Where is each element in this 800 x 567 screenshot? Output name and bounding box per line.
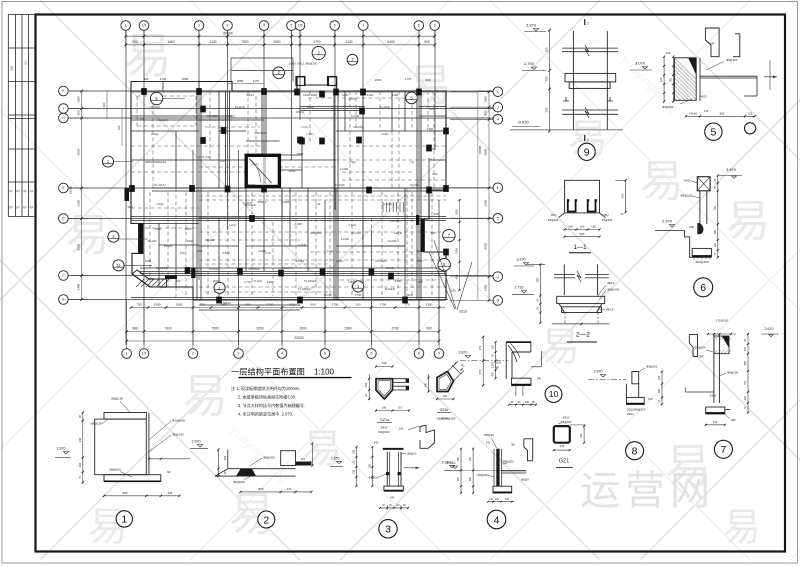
svg-text:150: 150 bbox=[352, 469, 355, 474]
svg-text:L3(2): L3(2) bbox=[151, 132, 158, 136]
svg-text:140: 140 bbox=[382, 406, 387, 410]
svg-text:易: 易 bbox=[124, 30, 172, 83]
svg-text:5800: 5800 bbox=[484, 242, 488, 249]
svg-text:L16: L16 bbox=[417, 249, 422, 253]
svg-text:9: 9 bbox=[434, 24, 436, 28]
svg-text:22000: 22000 bbox=[294, 336, 304, 340]
svg-text:L4(1): L4(1) bbox=[306, 132, 313, 136]
svg-text:2Φ8: 2Φ8 bbox=[731, 419, 736, 422]
svg-text:KL4(1A): KL4(1A) bbox=[154, 183, 165, 187]
svg-text:2Φ8: 2Φ8 bbox=[689, 225, 695, 229]
svg-text:GZ1a: GZ1a bbox=[380, 418, 389, 422]
svg-text:10: 10 bbox=[549, 389, 559, 399]
svg-text:WL(1): WL(1) bbox=[296, 110, 304, 114]
svg-text:5: 5 bbox=[291, 24, 293, 28]
svg-text:1: 1 bbox=[121, 514, 127, 526]
svg-text:240: 240 bbox=[579, 433, 583, 438]
svg-text:TL9(1): TL9(1) bbox=[324, 293, 333, 297]
svg-text:300x500: 300x500 bbox=[248, 267, 260, 271]
right dimension lines bbox=[450, 92, 493, 301]
svg-text:L8(2): L8(2) bbox=[348, 280, 355, 284]
svg-text:2.040: 2.040 bbox=[294, 222, 302, 226]
svg-text:KL11(2): KL11(2) bbox=[235, 105, 245, 109]
svg-text:700: 700 bbox=[139, 117, 144, 121]
svg-text:240: 240 bbox=[374, 440, 379, 444]
grid axis bubbles left bbox=[59, 86, 69, 304]
svg-text:5: 5 bbox=[710, 126, 716, 138]
svg-text:2100: 2100 bbox=[345, 40, 352, 44]
svg-text:2000: 2000 bbox=[273, 40, 280, 44]
svg-text:2.870: 2.870 bbox=[594, 370, 603, 374]
section 2-2 bbox=[512, 258, 619, 343]
detail 7 parapet section bbox=[685, 319, 779, 459]
svg-text:15800: 15800 bbox=[478, 145, 482, 154]
svg-text:6400: 6400 bbox=[387, 40, 394, 44]
svg-text:易: 易 bbox=[540, 325, 580, 369]
svg-text:1500: 1500 bbox=[176, 303, 183, 307]
svg-text:7: 7 bbox=[720, 444, 726, 456]
svg-text:3.670: 3.670 bbox=[726, 167, 737, 172]
svg-text:2: 2 bbox=[198, 24, 200, 28]
svg-text:运营网: 运营网 bbox=[580, 469, 715, 513]
svg-text:2.750: 2.750 bbox=[524, 61, 535, 66]
svg-text:2Φ14: 2Φ14 bbox=[246, 93, 254, 97]
K-line gray beam band bbox=[131, 91, 478, 93]
svg-text:150: 150 bbox=[469, 476, 472, 481]
porch column boxes bbox=[296, 77, 305, 86]
svg-text:TL MN12: TL MN12 bbox=[219, 301, 232, 305]
svg-text:400x200: 400x200 bbox=[206, 114, 218, 118]
svg-text:900: 900 bbox=[132, 40, 138, 44]
svg-text:Φ6@20: Φ6@20 bbox=[477, 473, 487, 477]
svg-text:4: 4 bbox=[263, 24, 265, 28]
svg-text:500: 500 bbox=[245, 303, 250, 307]
svg-text:3.870: 3.870 bbox=[526, 23, 537, 28]
svg-text:8: 8 bbox=[632, 445, 638, 457]
svg-text:1700: 1700 bbox=[355, 293, 362, 297]
svg-text:4Φ12: 4Φ12 bbox=[700, 95, 707, 99]
svg-text:270: 270 bbox=[478, 345, 482, 350]
svg-text:8: 8 bbox=[418, 24, 420, 28]
svg-text:490: 490 bbox=[484, 110, 488, 115]
canopy outline bbox=[231, 58, 293, 82]
interior dashed beam lines bbox=[131, 91, 446, 300]
svg-text:100: 100 bbox=[492, 371, 495, 376]
svg-text:450: 450 bbox=[455, 274, 459, 279]
svg-text:140: 140 bbox=[489, 498, 494, 501]
svg-text:KL7(1): KL7(1) bbox=[410, 183, 419, 187]
svg-text:3. 节点大样的括号内数值为轴线编号.: 3. 节点大样的括号内数值为轴线编号. bbox=[238, 402, 305, 408]
svg-text:300: 300 bbox=[433, 212, 438, 216]
svg-text:300x550: 300x550 bbox=[310, 231, 322, 235]
section 1-1 bbox=[548, 179, 627, 253]
svg-text:4. 未注明的梁定位居中: 2.870.: 4. 未注明的梁定位居中: 2.870. bbox=[238, 411, 293, 417]
bottom dimension lines bbox=[127, 300, 445, 349]
svg-text:3: 3 bbox=[238, 352, 240, 356]
svg-text:4Φ14: 4Φ14 bbox=[607, 281, 615, 285]
column GZ1 plan detail bbox=[553, 416, 586, 468]
svg-text:120: 120 bbox=[580, 225, 585, 229]
corner column GZ1a plan bbox=[365, 361, 410, 412]
notes bbox=[231, 385, 305, 417]
svg-text:1700: 1700 bbox=[395, 279, 402, 283]
svg-text:1: 1 bbox=[125, 24, 127, 28]
svg-text:500: 500 bbox=[621, 193, 625, 198]
svg-text:KL8(2): KL8(2) bbox=[209, 267, 218, 271]
svg-text:1100: 1100 bbox=[455, 248, 459, 254]
svg-text:核3: 核3 bbox=[30, 205, 34, 209]
inner right dim chain bbox=[459, 200, 461, 290]
svg-text:3: 3 bbox=[227, 24, 229, 28]
svg-text:GZ1a: GZ1a bbox=[459, 310, 467, 314]
svg-text:240: 240 bbox=[560, 444, 565, 448]
svg-text:330: 330 bbox=[714, 229, 717, 234]
svg-text:Φ8@200: Φ8@200 bbox=[726, 58, 738, 62]
detail 10 wall section bbox=[459, 336, 562, 406]
detail 4 wall base section bbox=[444, 433, 533, 529]
svg-text:900: 900 bbox=[417, 259, 422, 263]
svg-text:100: 100 bbox=[495, 498, 500, 501]
svg-text:1:100: 1:100 bbox=[314, 368, 335, 377]
svg-text:1x430: 1x430 bbox=[341, 237, 350, 241]
svg-text:1100: 1100 bbox=[145, 259, 152, 263]
svg-text:150: 150 bbox=[78, 462, 82, 467]
left dimension lines bbox=[68, 91, 88, 300]
svg-text:120: 120 bbox=[659, 77, 663, 82]
svg-text:2.870: 2.870 bbox=[222, 251, 230, 255]
svg-text:140: 140 bbox=[713, 420, 718, 424]
svg-text:L13(1): L13(1) bbox=[258, 249, 267, 253]
svg-text:易: 易 bbox=[726, 197, 770, 246]
svg-text:一层结构平面布置图: 一层结构平面布置图 bbox=[231, 367, 305, 377]
svg-text:1730: 1730 bbox=[160, 77, 167, 81]
svg-text:L5(2): L5(2) bbox=[381, 132, 388, 136]
svg-text:600: 600 bbox=[122, 491, 127, 495]
detail 9 wall section bbox=[510, 19, 623, 160]
svg-text:800: 800 bbox=[258, 487, 263, 491]
svg-text:GZb: GZb bbox=[450, 289, 456, 293]
svg-text:980: 980 bbox=[132, 327, 138, 331]
svg-text:审3: 审3 bbox=[30, 189, 34, 193]
svg-text:240: 240 bbox=[486, 441, 491, 445]
svg-text:4Φ12: 4Φ12 bbox=[563, 416, 570, 420]
svg-text:GZ1b: GZ1b bbox=[440, 408, 449, 412]
svg-text:900: 900 bbox=[426, 327, 432, 331]
svg-text:120: 120 bbox=[744, 395, 747, 400]
svg-text:GZ1: GZ1 bbox=[559, 459, 569, 465]
svg-text:240: 240 bbox=[710, 42, 715, 46]
svg-text:1770: 1770 bbox=[349, 97, 356, 101]
corner column GZ1b plan bbox=[425, 361, 466, 421]
grid axis bubbles right bbox=[493, 87, 503, 305]
svg-text:350: 350 bbox=[368, 463, 371, 468]
svg-text:L7(2): L7(2) bbox=[348, 160, 355, 164]
svg-text:775: 775 bbox=[417, 280, 422, 284]
svg-text:Φ8@200: Φ8@200 bbox=[646, 365, 658, 369]
svg-text:900: 900 bbox=[175, 279, 180, 283]
svg-text:注 1. 现浇板厚度除注明外均为100mm.: 注 1. 现浇板厚度除注明外均为100mm. bbox=[231, 385, 301, 391]
svg-text:h=1.440: h=1.440 bbox=[200, 155, 211, 159]
floor plan grid lines bbox=[66, 31, 493, 346]
svg-text:3.870: 3.870 bbox=[517, 258, 526, 262]
svg-text:330: 330 bbox=[657, 388, 661, 393]
svg-text:Φ5@9: Φ5@9 bbox=[521, 478, 529, 482]
svg-text:Φ10@200: Φ10@200 bbox=[172, 419, 186, 423]
svg-text:580: 580 bbox=[535, 277, 539, 282]
svg-text:z: z bbox=[587, 138, 589, 142]
svg-text:2.870: 2.870 bbox=[192, 440, 201, 444]
GZ1 leader lines bbox=[429, 240, 472, 310]
svg-text:2: 2 bbox=[263, 514, 269, 526]
svg-text:900: 900 bbox=[424, 40, 430, 44]
svg-text:4460: 4460 bbox=[167, 40, 174, 44]
svg-text:Φ8@200: Φ8@200 bbox=[727, 371, 738, 375]
svg-text:1300: 1300 bbox=[427, 127, 434, 131]
svg-text:900: 900 bbox=[127, 205, 132, 209]
svg-text:3: 3 bbox=[385, 524, 391, 536]
svg-text:1100: 1100 bbox=[392, 93, 399, 97]
svg-text:Φ8@200: Φ8@200 bbox=[263, 456, 275, 460]
svg-text:L12(2): L12(2) bbox=[384, 202, 393, 206]
building perimeter bbox=[131, 77, 446, 300]
svg-text:7L9(1): 7L9(1) bbox=[146, 277, 155, 281]
svg-text:Φ8@200: Φ8@200 bbox=[680, 194, 692, 198]
svg-text:KL2(2): KL2(2) bbox=[351, 231, 360, 235]
svg-text:3.070: 3.070 bbox=[635, 61, 646, 66]
svg-text:2100: 2100 bbox=[209, 40, 216, 44]
svg-text:Φ8: Φ8 bbox=[495, 366, 499, 370]
svg-text:7: 7 bbox=[362, 24, 364, 28]
svg-text:4Φ12: 4Φ12 bbox=[495, 361, 502, 365]
svg-text:240: 240 bbox=[287, 487, 292, 491]
svg-text:Ke130: Ke130 bbox=[388, 239, 397, 243]
svg-text:3.870: 3.870 bbox=[459, 351, 468, 355]
svg-text:5: 5 bbox=[324, 352, 326, 356]
svg-text:7500: 7500 bbox=[241, 40, 248, 44]
svg-text:1500: 1500 bbox=[297, 152, 304, 156]
svg-text:Φ6: Φ6 bbox=[511, 443, 515, 447]
svg-text:5800: 5800 bbox=[77, 243, 81, 250]
svg-text:120: 120 bbox=[744, 346, 747, 351]
svg-text:审2: 审2 bbox=[23, 189, 27, 193]
svg-text:(600x600): (600x600) bbox=[145, 160, 159, 164]
svg-text:500: 500 bbox=[580, 232, 585, 236]
svg-text:1400: 1400 bbox=[289, 169, 296, 173]
svg-text:审0: 审0 bbox=[9, 189, 13, 193]
svg-text:2300: 2300 bbox=[344, 327, 351, 331]
svg-text:1170: 1170 bbox=[253, 79, 260, 83]
svg-text:36U: 36U bbox=[603, 213, 608, 217]
svg-text:7L9(1): 7L9(1) bbox=[254, 279, 263, 283]
detail 7 number bbox=[714, 440, 732, 458]
svg-text:1300: 1300 bbox=[429, 107, 436, 111]
svg-text:240: 240 bbox=[168, 491, 173, 495]
svg-text:1400 1100: 1400 1100 bbox=[303, 93, 317, 97]
svg-text:L1(1): L1(1) bbox=[301, 125, 308, 129]
bay window hatch bbox=[136, 279, 169, 287]
svg-text:L7(1): L7(1) bbox=[244, 280, 251, 284]
svg-text:2400: 2400 bbox=[484, 284, 488, 291]
spare circle bbox=[745, 123, 756, 134]
svg-text:6: 6 bbox=[700, 282, 706, 294]
svg-text:易: 易 bbox=[723, 507, 761, 549]
svg-text:2. 本层梁板顶标高除注明者C30.: 2. 本层梁板顶标高除注明者C30. bbox=[238, 394, 296, 400]
svg-text:700: 700 bbox=[117, 125, 121, 130]
detail 8 number bbox=[626, 442, 644, 460]
detail 5 balcony section bbox=[630, 28, 777, 140]
svg-text:图名: 图名 bbox=[10, 66, 14, 71]
svg-text:L9(1): L9(1) bbox=[336, 259, 343, 263]
svg-text:KL6(3): KL6(3) bbox=[335, 183, 344, 187]
svg-text:核2: 核2 bbox=[23, 205, 27, 209]
svg-text:L6(1): L6(1) bbox=[251, 162, 258, 166]
svg-text:KL5(2A): KL5(2A) bbox=[244, 183, 255, 187]
svg-text:Φ8@150: Φ8@150 bbox=[111, 397, 123, 401]
svg-text:KL8(7A): KL8(7A) bbox=[282, 266, 293, 270]
svg-text:TL12: TL12 bbox=[160, 285, 167, 289]
svg-text:h=120: h=120 bbox=[296, 259, 305, 263]
svg-text:2.940: 2.940 bbox=[447, 461, 456, 465]
svg-text:Φ6@200: Φ6@200 bbox=[662, 105, 674, 109]
svg-text:1320: 1320 bbox=[185, 227, 192, 231]
svg-text:2100: 2100 bbox=[367, 93, 374, 97]
svg-text:L14: L14 bbox=[327, 249, 332, 253]
interior beam lines bbox=[131, 82, 446, 311]
svg-text:1700: 1700 bbox=[380, 303, 387, 307]
svg-text:6: 6 bbox=[370, 352, 372, 356]
svg-text:J: J bbox=[63, 107, 65, 111]
svg-text:Φ8@150: Φ8@150 bbox=[90, 422, 102, 426]
svg-text:KL7(3A): KL7(3A) bbox=[375, 259, 386, 263]
top dimension lines bbox=[126, 31, 435, 48]
detail marker circles in plan bbox=[102, 46, 455, 293]
svg-text:20000: 20000 bbox=[223, 32, 233, 36]
svg-text:2000: 2000 bbox=[299, 327, 306, 331]
svg-text:900: 900 bbox=[407, 293, 412, 297]
svg-text:Φ10@200: Φ10@200 bbox=[696, 260, 709, 264]
svg-text:z: z bbox=[587, 22, 589, 26]
svg-text:x=920: x=920 bbox=[281, 200, 290, 204]
svg-text:3200: 3200 bbox=[256, 327, 263, 331]
svg-text:Φ6@20: Φ6@20 bbox=[369, 475, 379, 479]
svg-text:KL MN(2): KL MN(2) bbox=[156, 266, 169, 270]
svg-text:3580: 3580 bbox=[155, 227, 162, 231]
grid axis bubbles top bbox=[121, 21, 440, 31]
svg-text:200: 200 bbox=[301, 457, 306, 461]
svg-text:570: 570 bbox=[478, 369, 482, 374]
svg-text:2Φ14: 2Φ14 bbox=[710, 394, 717, 398]
svg-text:TL MN12: TL MN12 bbox=[298, 287, 311, 291]
svg-text:核0: 核0 bbox=[9, 205, 13, 209]
svg-text:Φ8@200: Φ8@200 bbox=[607, 288, 619, 292]
detail 6 number bbox=[694, 278, 713, 297]
svg-text:Ke120: Ke120 bbox=[148, 239, 157, 243]
svg-text:600: 600 bbox=[425, 78, 430, 82]
detail 5 number bbox=[705, 123, 722, 140]
svg-text:Φ6@200: Φ6@200 bbox=[548, 218, 559, 222]
svg-text:580: 580 bbox=[744, 360, 747, 365]
svg-text:2600: 2600 bbox=[375, 78, 382, 82]
stair treads bbox=[383, 202, 403, 212]
svg-text:150: 150 bbox=[352, 449, 355, 454]
detail 3 column section bbox=[330, 416, 456, 538]
svg-text:340: 340 bbox=[443, 394, 448, 398]
svg-text:KL3(3): KL3(3) bbox=[353, 125, 362, 129]
svg-text:340: 340 bbox=[78, 437, 82, 442]
svg-text:190: 190 bbox=[591, 225, 596, 229]
svg-text:1: 1 bbox=[126, 352, 128, 356]
svg-text:L11: L11 bbox=[316, 202, 321, 206]
svg-text:300: 300 bbox=[457, 456, 460, 461]
svg-text:L9(2): L9(2) bbox=[156, 202, 163, 206]
svg-text:300: 300 bbox=[457, 476, 460, 481]
svg-text:Φ6@200: Φ6@200 bbox=[561, 420, 572, 424]
detail 6 stair/landing section bbox=[655, 167, 742, 297]
svg-text:700: 700 bbox=[219, 159, 224, 163]
svg-text:200: 200 bbox=[223, 455, 227, 460]
svg-text:KL13(3): KL13(3) bbox=[380, 105, 391, 109]
svg-text:7500: 7500 bbox=[211, 327, 218, 331]
svg-text:2400: 2400 bbox=[77, 283, 81, 290]
svg-text:1/2: 1/2 bbox=[142, 352, 147, 356]
svg-text:B1: B1 bbox=[428, 157, 432, 161]
svg-text:900: 900 bbox=[289, 303, 294, 307]
svg-text:Lx(1A): Lx(1A) bbox=[298, 243, 307, 247]
svg-text:Φ8@20: Φ8@20 bbox=[484, 433, 494, 437]
svg-text:Kx120: Kx120 bbox=[164, 244, 173, 248]
shear wall bars bbox=[139, 223, 144, 254]
svg-text:730: 730 bbox=[179, 251, 184, 255]
svg-text:1700: 1700 bbox=[267, 303, 274, 307]
svg-text:800: 800 bbox=[720, 111, 725, 115]
svg-text:6: 6 bbox=[334, 24, 336, 28]
svg-text:2.6x0: 2.6x0 bbox=[348, 223, 356, 227]
svg-text:230: 230 bbox=[525, 401, 530, 404]
svg-text:7320: 7320 bbox=[164, 327, 171, 331]
svg-text:150: 150 bbox=[355, 303, 360, 307]
svg-text:1800: 1800 bbox=[77, 199, 81, 206]
svg-text:15800: 15800 bbox=[69, 185, 73, 194]
svg-text:150: 150 bbox=[469, 456, 472, 461]
svg-text:170,80,50: 170,80,50 bbox=[716, 319, 728, 323]
svg-text:Φ8@200: Φ8@200 bbox=[109, 468, 121, 472]
svg-text:2Φ14: 2Φ14 bbox=[627, 412, 634, 416]
svg-text:h=700: h=700 bbox=[351, 114, 360, 118]
svg-text:Φ8@20: Φ8@20 bbox=[407, 452, 417, 456]
svg-text:fw130: fw130 bbox=[158, 160, 166, 164]
svg-text:110: 110 bbox=[398, 406, 403, 410]
svg-text:4: 4 bbox=[494, 514, 500, 526]
svg-text:L15: L15 bbox=[197, 249, 202, 253]
structural columns bbox=[129, 88, 449, 303]
svg-text:1—1: 1—1 bbox=[573, 244, 587, 251]
svg-text:700: 700 bbox=[744, 380, 747, 385]
svg-text:1500: 1500 bbox=[213, 279, 220, 283]
detail 1 pit section bbox=[55, 397, 190, 528]
svg-text:5800: 5800 bbox=[77, 148, 81, 155]
svg-text:600: 600 bbox=[430, 231, 435, 235]
svg-text:140: 140 bbox=[537, 377, 542, 381]
svg-text:2.970: 2.970 bbox=[57, 447, 66, 451]
svg-text:KL2(2): KL2(2) bbox=[225, 114, 234, 118]
svg-text:Ke120: Ke120 bbox=[206, 238, 215, 242]
svg-text:120: 120 bbox=[748, 111, 753, 115]
svg-text:4: 4 bbox=[281, 352, 283, 356]
svg-text:工程: 工程 bbox=[24, 60, 28, 65]
svg-text:-0.030: -0.030 bbox=[517, 120, 529, 125]
svg-text:2060: 2060 bbox=[182, 77, 189, 81]
svg-text:1750: 1750 bbox=[332, 303, 339, 307]
